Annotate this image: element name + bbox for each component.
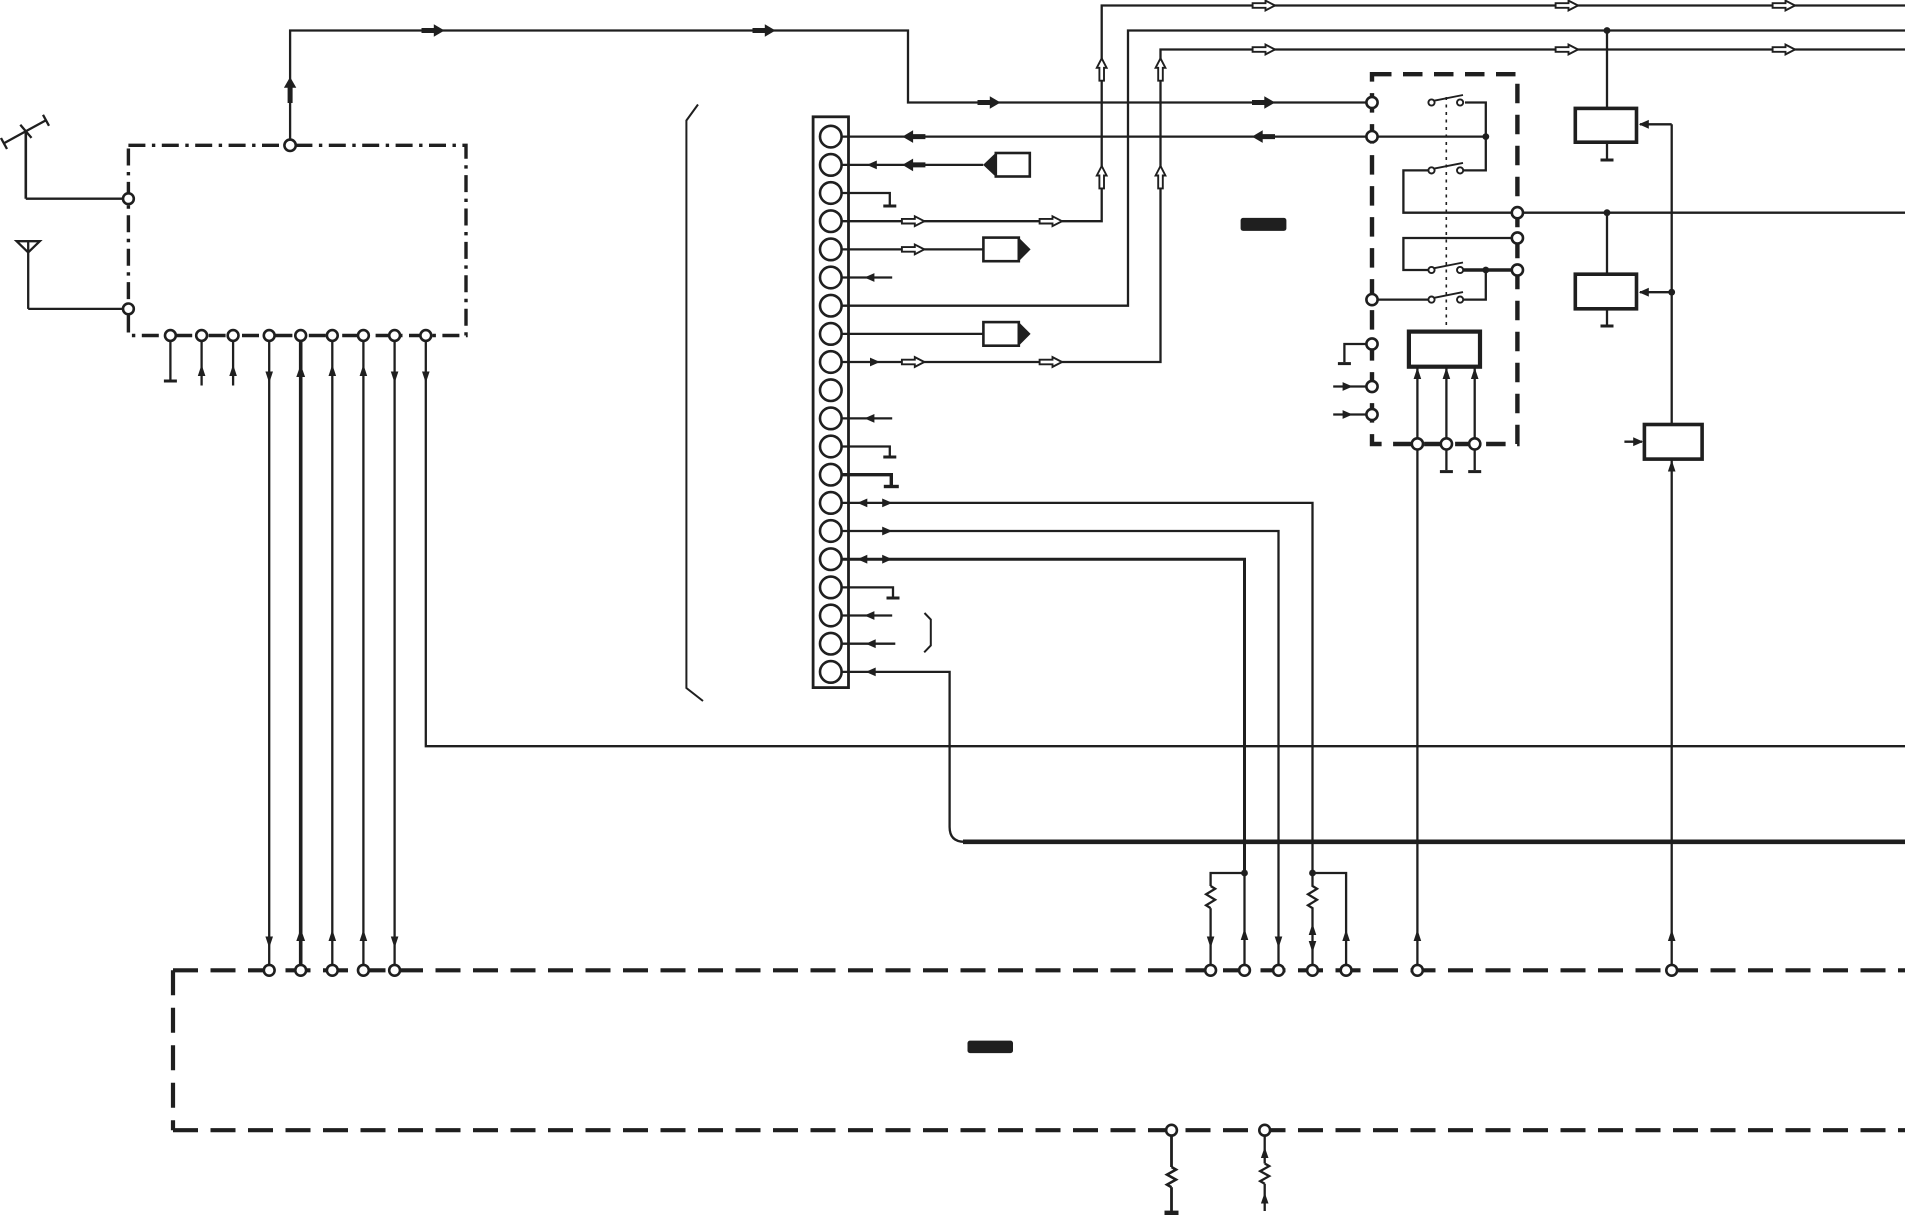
arrow stub into U4 left side xyxy=(1624,441,1642,443)
ground bar at relay pin y344 xyxy=(1338,362,1351,365)
arrow hollow up on pin4 riser b xyxy=(1097,166,1107,188)
wire resistor to ground xyxy=(1170,1187,1173,1211)
node relay bottom pin A xyxy=(1412,438,1423,449)
wire junction y30 down to U2 xyxy=(1606,31,1608,109)
arrow small left on pin19 stub xyxy=(866,639,876,648)
arrow thick right on feed top segment 1 xyxy=(422,24,445,37)
off-page flag at pin2 (solid left point + box) xyxy=(983,153,1030,177)
node tuner left pin 2 xyxy=(123,304,134,315)
main unit box bottom border xyxy=(173,1128,1905,1132)
wire tuner pin8 down to main unit xyxy=(393,341,395,965)
node tuner left pin 1 xyxy=(123,193,134,204)
node CN pin2 xyxy=(820,154,842,176)
arrow up into coil pin A xyxy=(1414,368,1422,380)
arrow up on relay drop wire xyxy=(1414,930,1422,942)
arrow up on lower x1264 wire xyxy=(1261,1193,1269,1204)
antenna ANT2 (rod antenna symbol, left) xyxy=(17,241,40,309)
arrow up on pin6 wire top xyxy=(329,365,337,377)
wire arrow stub into relay pin y414 xyxy=(1333,413,1366,415)
wire CN pin17 to termination xyxy=(842,587,893,596)
label A (blacked-out reference near relay box) xyxy=(1241,218,1287,231)
ground bar under U2 xyxy=(1601,159,1614,162)
wire CN pin12 to termination xyxy=(842,447,890,456)
node relay bottom pin B xyxy=(1441,438,1452,449)
termination bar pin12 xyxy=(883,456,896,459)
node tuner bottom pin 9 xyxy=(420,330,431,341)
wire right riser (U2 branch down to U4 top) xyxy=(1671,124,1673,424)
main unit box top border (heavy dashed) xyxy=(173,968,1905,972)
node CN pin13 xyxy=(820,464,842,486)
antenna ANT1 (rooftop antenna symbol, top-left) xyxy=(1,115,49,199)
connector CN201 body xyxy=(813,117,848,688)
arrow hollow right on pin9 wire b xyxy=(1040,357,1062,367)
node tuner bottom pin 8 xyxy=(389,330,400,341)
arrow hollow right on top line y5 b xyxy=(1556,1,1578,11)
node CN pin6 xyxy=(820,267,842,289)
arrow small left into U2 xyxy=(1639,120,1649,129)
termination bar pin13 xyxy=(884,485,899,488)
node main unit top pin x1417 xyxy=(1412,965,1423,976)
wire CN pin18 stub xyxy=(842,614,893,616)
ground bar under U3 xyxy=(1601,325,1614,328)
arrow down on pin4 wire bottom xyxy=(265,937,273,949)
arrow small right at relay pin y414 xyxy=(1343,410,1353,419)
arrow hollow right on pin4 wire b xyxy=(1040,216,1062,226)
arrow thick right on feed segment y102 a xyxy=(978,96,1001,109)
node main unit bottom pin x1171 xyxy=(1166,1125,1177,1136)
wire pin16 junction to unit pin xyxy=(1243,873,1245,965)
arrow small left on pin16 wire xyxy=(857,555,867,564)
wire CN pin6 stub xyxy=(842,276,893,278)
node CN pin14 xyxy=(820,492,842,514)
arrow up on pin7 wire bottom xyxy=(360,930,368,942)
wire CN pin19 stub xyxy=(842,643,896,645)
main unit box left border xyxy=(171,970,175,1130)
node relay right pin y212 xyxy=(1512,207,1523,218)
arrow up at tuner pin2 xyxy=(198,365,206,377)
arrow down small on pin14 drop xyxy=(1309,941,1317,953)
resistor on branch left xyxy=(1206,886,1215,908)
off-page flag at pin5 (box + solid right point) xyxy=(983,238,1030,262)
wire CN pin4 right, up, and across top to right edge xyxy=(842,6,1905,222)
arrow small right on pin9 wire xyxy=(870,358,880,367)
node main unit bottom pin x1264 xyxy=(1259,1125,1270,1136)
switch SW3 wiring: right side thick to border pin xyxy=(1463,268,1512,271)
node main unit top pin x394 xyxy=(389,965,400,976)
ground bar bottom x1171 xyxy=(1165,1211,1179,1215)
wire CN pin11 stub xyxy=(842,417,893,419)
arrow small right on pin14 wire xyxy=(882,499,892,508)
ground bar under relay pin B xyxy=(1440,470,1453,473)
wire right riser into U2 side xyxy=(1640,123,1672,125)
relay unit box (heavy dashed border) xyxy=(1372,74,1517,444)
node tuner bottom pin 6 xyxy=(327,330,338,341)
switch SW3 contacts and blade xyxy=(1428,263,1463,274)
arrow up into coil pin B xyxy=(1443,368,1451,380)
node relay right pin y238 xyxy=(1512,232,1523,243)
wire resistor to unit pin xyxy=(1209,908,1211,965)
arrow up on branch wire xyxy=(1342,930,1350,942)
wire junction y212 down to U3 xyxy=(1606,213,1608,275)
wire tuner pin3 stub with up arrow xyxy=(232,341,234,386)
arrow up on pin5 wire top xyxy=(296,365,305,378)
box U4 xyxy=(1644,425,1702,460)
node CN pin19 xyxy=(820,633,842,655)
arrow hollow right on line y49 b xyxy=(1556,45,1578,55)
arrow hollow up on pin4 riser a xyxy=(1097,58,1107,80)
termination bar pin3 xyxy=(883,205,896,208)
arrow small left on pin2 wire xyxy=(867,161,877,170)
node main unit top pin x1312 xyxy=(1307,965,1318,976)
wire CN pin8 to flag xyxy=(842,333,984,335)
wire coil pin A up into coil xyxy=(1416,367,1418,439)
wire resistor to unit pin with up/down arrows xyxy=(1311,925,1313,965)
node relay left pin y102 xyxy=(1366,97,1377,108)
arrow hollow right on pin9 wire a xyxy=(902,357,924,367)
node main unit top pin x1346 xyxy=(1341,965,1352,976)
wire relay bottom pin C to ground xyxy=(1474,450,1476,471)
node CN pin10 xyxy=(820,379,842,401)
wire ANT2 to tuner pin xyxy=(28,308,123,310)
arrow up into bottom pin x1264 xyxy=(1261,1147,1269,1158)
arrow hollow right on top line y5 c xyxy=(1773,1,1795,11)
wire bottom pin x1171 down xyxy=(1170,1136,1173,1167)
switch SW4 contacts and blade xyxy=(1428,292,1463,303)
arrow hollow right on line y49 c xyxy=(1773,45,1795,55)
node tuner bottom pin 1 xyxy=(165,330,176,341)
wire CN pin16 right then down (thick) xyxy=(842,559,1245,873)
node CN pin1 xyxy=(820,126,842,148)
wire junction down to SW4 right xyxy=(1463,270,1486,300)
wire tuner pin2 stub with up arrow xyxy=(200,341,202,386)
node main unit top pin x300 xyxy=(295,965,306,976)
resistor under pin x1264 xyxy=(1260,1164,1269,1184)
node main unit top pin x1278 xyxy=(1273,965,1284,976)
arrow small right into U4 xyxy=(1633,437,1643,446)
wire ANT1 to tuner pin xyxy=(26,198,123,200)
node junction SW1/SW2 at y136 xyxy=(1482,133,1489,140)
node CN pin11 xyxy=(820,408,842,430)
wire relay right pin y212 across to right edge xyxy=(1523,212,1905,214)
resistor on pin14 drop xyxy=(1308,873,1317,925)
arrow up on pin6 wire bottom xyxy=(329,930,337,942)
wire CN pin15 right then down to main unit xyxy=(842,531,1279,965)
wire CN pin20 right, down, curve to thick bus xyxy=(842,672,965,842)
wire tuner pin6 down to main unit xyxy=(331,341,333,965)
node main unit top pin x332 xyxy=(327,965,338,976)
arrow down on pin15 drop xyxy=(1275,937,1283,949)
node CN pin5 xyxy=(820,239,842,261)
arrow small left on pin18 stub xyxy=(864,611,874,620)
switch SW1 contacts and blade xyxy=(1428,95,1463,106)
wire tuner pin4 down to main unit xyxy=(268,341,270,965)
wire tuner pin1 to ground xyxy=(169,341,171,380)
node CN pin3 xyxy=(820,182,842,204)
arrow up small on pin14 drop xyxy=(1309,924,1317,936)
wire below resistor x1264 xyxy=(1264,1184,1266,1211)
arrow up on pin7 wire top xyxy=(360,365,368,377)
arrow thick left on pin1 wire a xyxy=(902,130,925,143)
arrow thick right on feed top segment 2 xyxy=(753,24,776,37)
arrow small right at relay pin y386 xyxy=(1343,382,1353,391)
node junction on y30 line feeding box U2 xyxy=(1604,27,1611,34)
arrow thick left on pin1 wire b xyxy=(1252,130,1275,143)
wire branch left from pin16 junction xyxy=(1211,873,1245,886)
arrow hollow right on pin4 wire a xyxy=(902,216,924,226)
wire CN pin2 to flag xyxy=(842,164,984,166)
node CN pin7 xyxy=(820,295,842,317)
resistor under pin x1171 xyxy=(1167,1167,1176,1187)
node tuner bottom pin 7 xyxy=(358,330,369,341)
wire branch right from pin14 junction xyxy=(1313,873,1347,965)
wire CN pin5 to flag xyxy=(842,248,984,250)
wire CN pin13 to termination (thick) xyxy=(842,475,892,485)
bracket paren right of pins 18-19 xyxy=(924,613,931,652)
arrow hollow right on top line y5 a xyxy=(1253,1,1275,11)
node relay left pin y414 xyxy=(1366,409,1377,420)
wire relay pin y136 to junction xyxy=(1372,135,1486,137)
arrow up on pin5 wire bottom xyxy=(296,929,305,942)
wire bottom pin x1264 down xyxy=(1264,1136,1266,1164)
node CN pin4 xyxy=(820,210,842,232)
arrow down on pin4 wire top xyxy=(265,372,273,384)
node CN pin20 xyxy=(820,661,842,683)
node tuner bottom pin 5 xyxy=(295,330,306,341)
node tuner top pin xyxy=(284,140,295,151)
wire arrow stub into relay pin y386 xyxy=(1333,385,1366,387)
arrow down on pin8 wire bottom xyxy=(391,937,399,949)
wire CN pin9 right, up, across to right edge (y49) xyxy=(842,50,1905,363)
node relay bottom pin C xyxy=(1469,438,1480,449)
arrow hollow right on pin5 wire xyxy=(902,245,924,255)
arrow small left into U3 xyxy=(1639,288,1649,297)
wire coil pin C up into coil xyxy=(1474,367,1476,439)
wire right riser into U3 side xyxy=(1640,291,1672,293)
tuner unit box (dash-dot border) xyxy=(128,145,466,335)
wire tuner pin9 down then right across page xyxy=(426,341,1905,746)
node CN pin17 xyxy=(820,577,842,599)
node relay left pin y299 xyxy=(1366,294,1377,305)
wire U4 bottom down to main unit xyxy=(1671,459,1673,965)
node CN pin18 xyxy=(820,605,842,627)
node junction right riser at U3 xyxy=(1668,289,1675,296)
wire relay ground pin y344 xyxy=(1344,344,1366,362)
node relay left pin y136 xyxy=(1366,131,1377,142)
arrow small right on pin15 wire xyxy=(882,527,892,536)
arrow down on pin9 wire top xyxy=(422,372,430,384)
arrow small left on pin14 wire xyxy=(857,499,867,508)
arrow down on pin8 wire top xyxy=(391,372,399,384)
node junction y212 feeding U3 xyxy=(1604,209,1611,216)
switch SW2 wiring: left side loop to right border pin xyxy=(1403,170,1512,212)
arrow up on pin16 drop xyxy=(1241,929,1249,941)
node main unit top pin x269 xyxy=(264,965,275,976)
connector pin circles 1-20 xyxy=(820,126,842,683)
node CN pin8 xyxy=(820,323,842,345)
wire tuner pin5 down to main unit (thick) xyxy=(299,341,303,965)
node relay left pin y386 xyxy=(1366,381,1377,392)
arrow thick left on pin2 wire xyxy=(902,159,925,172)
switch SW2 contacts and blade xyxy=(1428,163,1463,174)
wire tuner top pin up and right to relay (antenna feed) xyxy=(290,31,1366,140)
ground bar under tuner pin1 xyxy=(164,380,177,383)
thick bus wire to right edge (y842) xyxy=(963,839,1905,844)
off-page flag at pin8 (box + solid right point) xyxy=(983,322,1030,346)
arrow up at tuner pin3 xyxy=(229,365,237,377)
switch SW3 wiring: left side loop to right border pin xyxy=(1403,238,1512,270)
wire relay pin y299 to SW4 left xyxy=(1372,298,1429,300)
box U2 xyxy=(1575,108,1636,142)
wire coil pin B up into coil xyxy=(1445,367,1447,439)
arrow small left on pin6 stub xyxy=(864,273,874,282)
node main unit top pin x363 xyxy=(358,965,369,976)
node CN pin15 xyxy=(820,520,842,542)
node junction pin14 wire lower xyxy=(1309,870,1316,877)
node tuner bottom pin 4 xyxy=(264,330,275,341)
node junction pin16 wire lower xyxy=(1241,870,1248,877)
switch SW1 wiring to junction xyxy=(1465,103,1486,137)
arrow up into U4 bottom xyxy=(1668,460,1676,472)
node main unit top pin x1244 xyxy=(1239,965,1250,976)
switch linkage dotted line xyxy=(1445,97,1447,332)
ground bar under relay pin C xyxy=(1468,470,1481,473)
arrow small right on pin16 wire xyxy=(882,555,892,564)
node main unit top pin x1672 xyxy=(1666,965,1677,976)
arrow up near main unit on U4 drop xyxy=(1668,930,1676,942)
wire CN pin3 to termination xyxy=(842,193,890,205)
node CN pin16 xyxy=(820,548,842,570)
arrow hollow up on pin9 riser a xyxy=(1156,58,1166,80)
switch SW2 wiring: right side up to junction xyxy=(1463,140,1486,171)
wire relay bottom pin A down to main unit xyxy=(1416,450,1418,965)
arrow hollow right on line y49 a xyxy=(1253,45,1275,55)
wire tuner pin7 down to main unit xyxy=(362,341,364,965)
node junction SW3 right xyxy=(1482,267,1489,274)
relay coil box xyxy=(1409,332,1480,367)
node tuner bottom pin 2 xyxy=(196,330,207,341)
node relay right pin y270 xyxy=(1512,264,1523,275)
arrow down on branch left drop xyxy=(1207,937,1215,949)
arrow thick right on feed segment y102 b xyxy=(1252,96,1275,109)
arrow thick up on tuner top feed xyxy=(284,77,296,103)
arrow small left on pin20 wire xyxy=(866,668,876,677)
node relay left pin y344 xyxy=(1366,338,1377,349)
wire-bundle brace (tall parenthesis left of connector) xyxy=(686,105,703,702)
node CN pin12 xyxy=(820,436,842,458)
arrow small left on pin11 stub xyxy=(864,414,874,423)
node tuner bottom pin 3 xyxy=(228,330,239,341)
node CN pin9 xyxy=(820,351,842,373)
wire CN pin14 right then down to main unit xyxy=(842,503,1313,873)
node main unit top pin x1210 xyxy=(1205,965,1216,976)
wire U3 to ground xyxy=(1606,309,1608,325)
termination bar pin17 xyxy=(887,597,900,600)
wire CN pin7 right, up, across to right edge (y30) xyxy=(842,31,1905,306)
arrow up into coil pin C xyxy=(1471,368,1479,380)
wire U2 to ground xyxy=(1606,142,1608,158)
arrow hollow up on pin9 riser b xyxy=(1156,166,1166,188)
wire relay bottom pin B to ground xyxy=(1445,450,1447,471)
box U3 xyxy=(1575,274,1636,309)
label B (blacked-out reference in main unit) xyxy=(968,1041,1014,1054)
wire CN pin1 to relay box xyxy=(842,135,1367,137)
